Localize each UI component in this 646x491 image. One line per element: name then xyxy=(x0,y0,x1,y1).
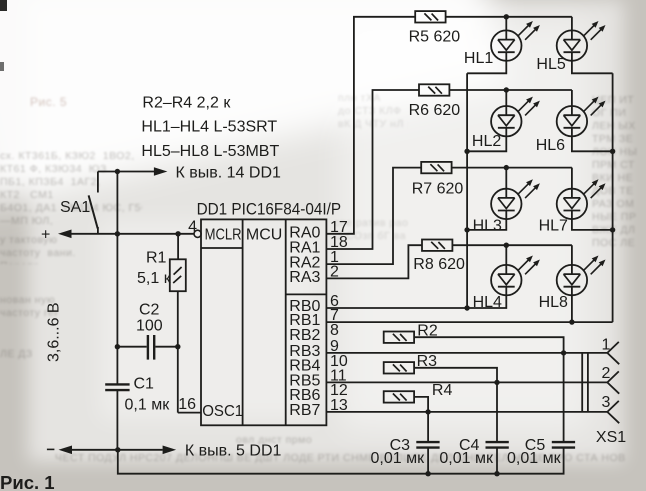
svg-text:HL1–HL4 L-53SRT: HL1–HL4 L-53SRT xyxy=(141,119,277,136)
svg-text:К выв. 5 DD1: К выв. 5 DD1 xyxy=(185,443,282,460)
pin label RB7 xyxy=(289,402,320,419)
svg-text:R8 620: R8 620 xyxy=(413,256,465,273)
+ terminal arrow xyxy=(41,227,194,244)
svg-text:R4: R4 xyxy=(432,382,453,399)
node C2-right junction OSC1 net xyxy=(175,344,180,349)
svg-text:3,6...6 В: 3,6...6 В xyxy=(46,302,63,362)
node cathode bus left row 2 xyxy=(464,149,469,154)
resistor R3 xyxy=(384,353,437,374)
connector XS1 body xyxy=(582,353,626,446)
wire RB6/R4 to node 3 xyxy=(414,397,428,412)
svg-text:Рис. 1: Рис. 1 xyxy=(0,472,55,491)
pin number 11 xyxy=(330,367,347,384)
node junction top feed xyxy=(115,169,120,174)
LED HL1 xyxy=(464,17,540,67)
capacitor C2 xyxy=(136,302,163,360)
svg-text:C1: C1 xyxy=(134,376,155,393)
node C4 ground xyxy=(494,471,499,476)
node +rail / R1 branch xyxy=(175,231,180,236)
pin number 13 xyxy=(330,397,348,414)
svg-text:100: 100 xyxy=(136,318,163,335)
contact 1 XS1 xyxy=(602,336,620,364)
pin number 8 xyxy=(330,322,339,339)
svg-text:R7 620: R7 620 xyxy=(412,181,464,198)
label HL5-HL8 L-53MBT xyxy=(141,143,279,160)
LED HL4 xyxy=(473,245,540,311)
resistor R6 xyxy=(409,84,461,119)
svg-text:RB2: RB2 xyxy=(289,327,320,344)
node -rail junction xyxy=(115,447,120,452)
wire net1 to C5 xyxy=(563,353,565,442)
LED HL5 xyxy=(536,17,605,73)
wire R1 top lead xyxy=(177,234,179,259)
pin label RB3 xyxy=(289,343,320,360)
svg-text:HL5: HL5 xyxy=(536,56,565,73)
wire HL5 cathode xyxy=(572,61,613,74)
pin 16 label xyxy=(178,396,196,413)
svg-text:SA1: SA1 xyxy=(60,199,90,216)
svg-text:К выв. 14 DD1: К выв. 14 DD1 xyxy=(176,164,282,181)
node net3 junction xyxy=(425,409,430,414)
wire RB2/R2 to node 1 xyxy=(414,337,563,353)
node HL8 cathode junction xyxy=(569,319,574,324)
LED HL6 xyxy=(536,90,606,154)
node C3 ground xyxy=(425,471,430,476)
svg-text:XS1: XS1 xyxy=(596,429,626,446)
svg-text:1: 1 xyxy=(602,336,611,353)
svg-text:R1: R1 xyxy=(146,250,167,267)
pin number 2 xyxy=(330,263,339,280)
wire net2 to C4 xyxy=(496,382,498,441)
corner scan marks xyxy=(0,0,7,11)
wire C4 bottom xyxy=(496,448,498,474)
wire -rail to DD1 pin 5 (К выв. 5 DD1) xyxy=(163,443,282,460)
wire HL3 cathode xyxy=(467,219,506,230)
node net1 junction xyxy=(561,350,566,355)
wire R1 bottom lead xyxy=(177,291,179,347)
capacitor C5 xyxy=(507,437,575,467)
pin label MCLR xyxy=(205,226,242,243)
node anode row 4 xyxy=(504,243,509,248)
svg-text:16: 16 xyxy=(178,396,196,413)
wire RB3 to XS1 pin 1 xyxy=(326,352,607,354)
pin number 1 xyxy=(330,249,339,266)
wire RB7 to XS1 pin 3 xyxy=(326,411,607,413)
capacitor C4 xyxy=(439,437,508,467)
resistor R5 xyxy=(409,11,461,45)
node cathode bus right row 3 xyxy=(610,227,615,232)
svg-text:OSC1: OSC1 xyxy=(202,403,243,420)
wire C3 bottom xyxy=(427,448,429,474)
svg-text:R5 620: R5 620 xyxy=(409,29,461,46)
svg-text:5,1 к: 5,1 к xyxy=(137,270,172,287)
svg-text:2: 2 xyxy=(602,365,611,382)
wire ground rail bottom xyxy=(118,448,564,474)
wire anode row 4 xyxy=(452,244,572,246)
svg-text:0,01 мк: 0,01 мк xyxy=(507,450,562,467)
wire net3 to C3 xyxy=(427,412,429,442)
svg-text:RA3: RA3 xyxy=(289,269,320,286)
node +rail / C1 branch xyxy=(115,231,120,236)
resistor R4 xyxy=(384,382,453,402)
bleed-through ghost text xyxy=(0,150,142,234)
svg-text:MCLR: MCLR xyxy=(205,226,242,243)
pin number 9 xyxy=(330,338,339,355)
wire +V column xyxy=(116,234,118,384)
svg-text:R2–R4 2,2 к: R2–R4 2,2 к xyxy=(142,94,231,111)
pin label RA2 xyxy=(289,255,320,272)
svg-text:HL5–HL8 L-53MBT: HL5–HL8 L-53MBT xyxy=(141,143,279,160)
wire RA3 to R8 xyxy=(326,245,422,278)
wire RA1 to R6 xyxy=(326,90,419,249)
svg-text:3: 3 xyxy=(602,394,611,411)
label 3,6...6 В xyxy=(46,302,63,362)
svg-text:0,01 мк: 0,01 мк xyxy=(371,450,426,467)
contact 3 XS1 xyxy=(602,394,620,423)
wire anode row 1 xyxy=(446,16,572,18)
wire OSC1 net to pin16 xyxy=(178,347,201,413)
wire C2 left lead xyxy=(117,346,146,348)
wire HL8 cathode xyxy=(571,295,573,322)
node cathode bus left bottom xyxy=(464,305,469,310)
svg-text:HL6: HL6 xyxy=(536,137,565,154)
wire RA0 to R5 xyxy=(326,17,415,234)
svg-text:C2: C2 xyxy=(139,302,160,319)
wire C1 bottom lead xyxy=(116,390,118,450)
wire RB5 to XS1 pin 2 xyxy=(326,381,607,383)
svg-text:RB7: RB7 xyxy=(289,402,320,419)
- terminal arrow xyxy=(47,446,163,455)
label R2-R4 2,2 к xyxy=(142,94,231,111)
LED HL8 xyxy=(539,245,606,311)
wire HL2 cathode xyxy=(467,136,506,151)
pin label RA0 xyxy=(289,224,320,241)
wire C2 right lead xyxy=(155,346,177,348)
pin number 10 xyxy=(330,353,348,370)
node cathode bus left row 3 xyxy=(464,227,469,232)
pin label RB6 xyxy=(289,387,320,404)
wire RA2 to R7 xyxy=(326,168,421,265)
switch SA1 xyxy=(60,172,98,234)
node C2-left junction xyxy=(115,344,120,349)
wire anode row 3 xyxy=(452,167,572,169)
svg-text:HL2: HL2 xyxy=(472,133,501,150)
svg-text:0,01 мк: 0,01 мк xyxy=(439,450,494,467)
node cathode bus right row 2 xyxy=(610,149,615,154)
capacitor C3 xyxy=(371,437,440,467)
resistor R2 xyxy=(384,322,438,343)
svg-text:MCU: MCU xyxy=(246,226,282,243)
wire HL1 cathode xyxy=(467,61,506,74)
pin number 17 xyxy=(330,219,348,236)
wire cathode bus left xyxy=(466,73,468,308)
IC DD1 PIC16F84-04I/P box xyxy=(197,199,342,425)
pin label RB5 xyxy=(289,372,320,389)
caption Рис. 1 xyxy=(0,472,55,491)
svg-text:R6 620: R6 620 xyxy=(409,102,461,119)
pin label MCU xyxy=(246,226,282,243)
wire HL7 cathode xyxy=(572,219,613,230)
pin label RB0 xyxy=(289,298,320,315)
svg-text:8: 8 xyxy=(330,322,339,339)
capacitor C1 xyxy=(105,376,170,414)
LED HL2 xyxy=(472,90,540,150)
pin label OSC1 xyxy=(202,403,243,420)
svg-text:0,1 мк: 0,1 мк xyxy=(125,397,171,414)
pin 4 MCLR inversion circle xyxy=(188,219,201,238)
wire vertical +V feed xyxy=(116,172,118,234)
svg-text:DD1 PIC16F84-04I/P: DD1 PIC16F84-04I/P xyxy=(197,199,342,218)
pin label RB1 xyxy=(289,312,320,329)
svg-text:HL8: HL8 xyxy=(539,294,568,311)
label HL1-HL4 L-53SRT xyxy=(141,119,277,136)
node anode row 1 xyxy=(504,14,509,19)
svg-text:4: 4 xyxy=(188,219,197,236)
pin label RB4 xyxy=(289,358,320,375)
wire +V to DD1 pin 14 (К выв. 14 DD1) xyxy=(98,164,281,181)
node anode row 3 xyxy=(504,165,509,170)
svg-text:HL7: HL7 xyxy=(539,218,568,235)
node anode row 2 xyxy=(504,87,509,92)
LED HL3 xyxy=(473,168,540,235)
wire RB0 to left cathode bus xyxy=(326,307,467,309)
wire HL6 cathode xyxy=(572,136,613,151)
contact 2 XS1 xyxy=(602,365,620,394)
resistor R8 xyxy=(413,240,465,274)
node net2 junction xyxy=(494,380,499,385)
svg-text:+: + xyxy=(41,227,50,244)
pin number 6 xyxy=(330,293,339,310)
svg-text:HL1: HL1 xyxy=(464,50,493,67)
pin number 12 xyxy=(330,382,348,399)
resistor R7 xyxy=(412,162,464,198)
wire anode row 2 xyxy=(449,89,572,91)
pin number 18 xyxy=(330,234,348,251)
wire cathode bus right xyxy=(612,73,614,322)
pin label RA1 xyxy=(289,240,320,257)
LED HL7 xyxy=(539,168,606,235)
wire RB1 to right cathode bus xyxy=(326,321,612,323)
wire RB4/R3 to node 2 xyxy=(414,368,497,383)
pin label RA3 xyxy=(289,269,320,286)
wire HL4 cathode xyxy=(467,295,506,308)
pin number 7 xyxy=(330,307,339,324)
resistor R1 xyxy=(137,250,186,292)
pin label RB2 xyxy=(289,327,320,344)
svg-text:HL3: HL3 xyxy=(473,218,502,235)
